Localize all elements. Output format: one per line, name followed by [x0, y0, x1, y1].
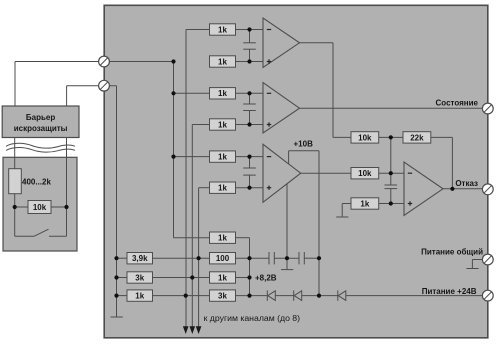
- svg-text:+8,2В: +8,2В: [255, 274, 277, 283]
- svg-text:3k: 3k: [135, 273, 144, 282]
- svg-text:1k: 1k: [218, 89, 227, 98]
- svg-text:1k: 1k: [218, 184, 227, 193]
- svg-text:1k: 1k: [218, 153, 227, 162]
- svg-text:1k: 1k: [218, 57, 227, 66]
- svg-text:+10В: +10В: [294, 140, 314, 149]
- svg-text:10k: 10k: [358, 133, 372, 142]
- svg-text:1k: 1k: [360, 199, 369, 208]
- svg-text:10k: 10k: [33, 203, 47, 212]
- svg-text:3,9k: 3,9k: [132, 254, 148, 263]
- svg-text:1k: 1k: [218, 234, 227, 243]
- svg-text:Состояние: Состояние: [436, 99, 479, 108]
- svg-text:к другим каналам (до 8): к другим каналам (до 8): [204, 313, 301, 323]
- svg-text:Барьер: Барьер: [26, 113, 55, 122]
- svg-text:400...2k: 400...2k: [22, 178, 51, 187]
- svg-text:Питание +24В: Питание +24В: [422, 287, 477, 296]
- svg-text:3k: 3k: [218, 292, 227, 301]
- svg-text:1k: 1k: [135, 292, 144, 301]
- svg-text:1k: 1k: [218, 273, 227, 282]
- svg-text:22k: 22k: [410, 133, 424, 142]
- svg-text:Питание общий: Питание общий: [421, 248, 483, 257]
- svg-text:1k: 1k: [218, 120, 227, 129]
- svg-text:100: 100: [216, 254, 230, 263]
- svg-text:искрозащиты: искрозащиты: [14, 124, 68, 133]
- svg-text:Отказ: Отказ: [455, 179, 478, 188]
- svg-text:10k: 10k: [358, 169, 372, 178]
- svg-text:1k: 1k: [218, 25, 227, 34]
